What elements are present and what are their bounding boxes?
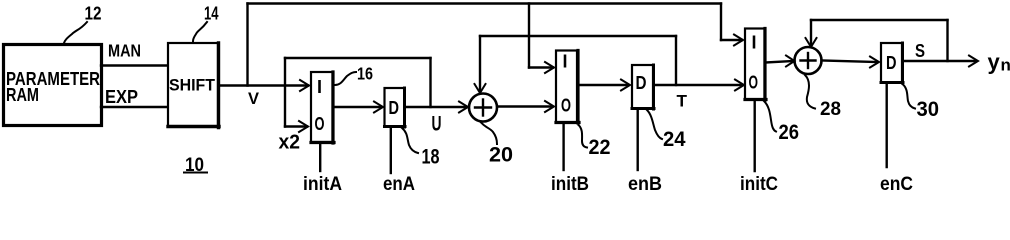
label 18 — [402, 128, 440, 169]
wire output S row to yn — [904, 60, 976, 62]
register block 26 (I/O) — [745, 29, 766, 101]
arrowhead into block16 I — [300, 80, 309, 91]
label 24 — [647, 110, 686, 151]
svg-text:initA: initA — [303, 174, 342, 191]
wire enA — [390, 128, 392, 173]
svg-text:12: 12 — [85, 3, 102, 24]
figure number 10 — [184, 155, 207, 176]
svg-text:U: U — [432, 113, 442, 136]
arrowhead output — [969, 56, 978, 67]
arrowhead into adder28 left — [786, 56, 795, 67]
svg-text:26: 26 — [779, 121, 800, 144]
svg-text:RAM: RAM — [6, 85, 39, 105]
parameter ram block 12 — [4, 45, 102, 126]
svg-text:D: D — [389, 98, 400, 118]
label 20 — [481, 123, 513, 167]
svg-text:EXP: EXP — [105, 87, 138, 107]
wire top feedback V bus — [248, 4, 722, 86]
delay block D 18 — [385, 88, 406, 127]
register block 22 (I/O) — [556, 51, 579, 124]
svg-text:D: D — [886, 53, 897, 73]
label 16 — [335, 64, 373, 86]
register block 16 (I/O) — [311, 72, 334, 143]
svg-text:x2: x2 — [279, 132, 301, 154]
delay block D 24 — [632, 65, 654, 109]
label 22 — [579, 125, 611, 159]
wire adder20 to block22 O — [498, 105, 553, 107]
wire adder28 to D30 — [822, 61, 878, 63]
wire initB — [562, 124, 564, 170]
svg-text:O: O — [561, 96, 571, 116]
svg-text:enC: enC — [880, 174, 913, 191]
loop wire around block 16 (U to O input) — [285, 58, 431, 132]
wire enC — [886, 84, 888, 167]
wire EXP — [101, 106, 167, 108]
svg-text:O: O — [749, 73, 759, 93]
wire D24 to block26 O (T row) — [655, 84, 742, 86]
svg-text:I: I — [752, 33, 757, 53]
svg-text:24: 24 — [663, 128, 686, 151]
wire initC — [754, 101, 756, 172]
wire MAN — [101, 64, 167, 66]
svg-text:S: S — [915, 40, 925, 61]
adder 28 — [795, 47, 822, 74]
arrowhead into block22 O — [545, 101, 554, 112]
arrowhead into D30 — [870, 57, 879, 68]
arrowhead into D24 — [621, 80, 630, 91]
wire block22 to D24 — [579, 84, 628, 86]
label 28 — [805, 75, 841, 120]
arrowhead into adder20 left — [459, 102, 468, 113]
arrowhead into D18 — [374, 102, 383, 113]
adder 20 — [469, 94, 497, 122]
svg-text:initB: initB — [551, 174, 589, 191]
wire top bus drop to block26 I — [721, 4, 743, 46]
svg-text:28: 28 — [820, 99, 841, 120]
svg-text:MAN: MAN — [108, 41, 141, 61]
wire top bus drop to block22 I — [529, 4, 554, 74]
svg-text:I: I — [317, 77, 322, 97]
label 26 — [764, 101, 799, 144]
svg-text:SHIFT: SHIFT — [169, 77, 215, 95]
label 30 — [903, 85, 939, 122]
delay block D 30 — [881, 43, 903, 83]
wire V row from SHIFT to block 16 — [220, 84, 308, 86]
svg-text:20: 20 — [489, 143, 513, 167]
svg-text:V: V — [248, 90, 259, 108]
svg-text:22: 22 — [589, 135, 611, 159]
label 12 — [64, 3, 102, 44]
svg-text:14: 14 — [204, 3, 219, 24]
wire D18 to adder 20 (U row) — [406, 106, 467, 108]
wire enB — [637, 110, 639, 170]
wire block16 to D18 — [334, 106, 381, 108]
wire block26 to adder28 — [766, 61, 793, 63]
svg-text:18: 18 — [422, 146, 440, 169]
svg-text:enB: enB — [628, 174, 662, 191]
svg-text:n: n — [1001, 56, 1010, 75]
svg-text:30: 30 — [917, 98, 940, 121]
node yn label — [988, 50, 1010, 75]
svg-text:y: y — [988, 50, 1001, 75]
arrowhead into block26 O — [735, 80, 744, 91]
svg-text:T: T — [677, 93, 688, 111]
svg-text:initC: initC — [740, 174, 778, 191]
svg-text:enA: enA — [383, 174, 415, 191]
svg-text:I: I — [563, 52, 568, 72]
svg-text:16: 16 — [357, 64, 373, 84]
shift block 14 — [168, 43, 219, 128]
wire initA — [319, 144, 321, 172]
wire feedback from output to adder28 top — [806, 20, 948, 61]
wire T feedback to adder 20 — [475, 36, 677, 93]
svg-text:D: D — [636, 73, 647, 93]
svg-text:O: O — [315, 114, 325, 134]
label 14 — [193, 3, 219, 42]
